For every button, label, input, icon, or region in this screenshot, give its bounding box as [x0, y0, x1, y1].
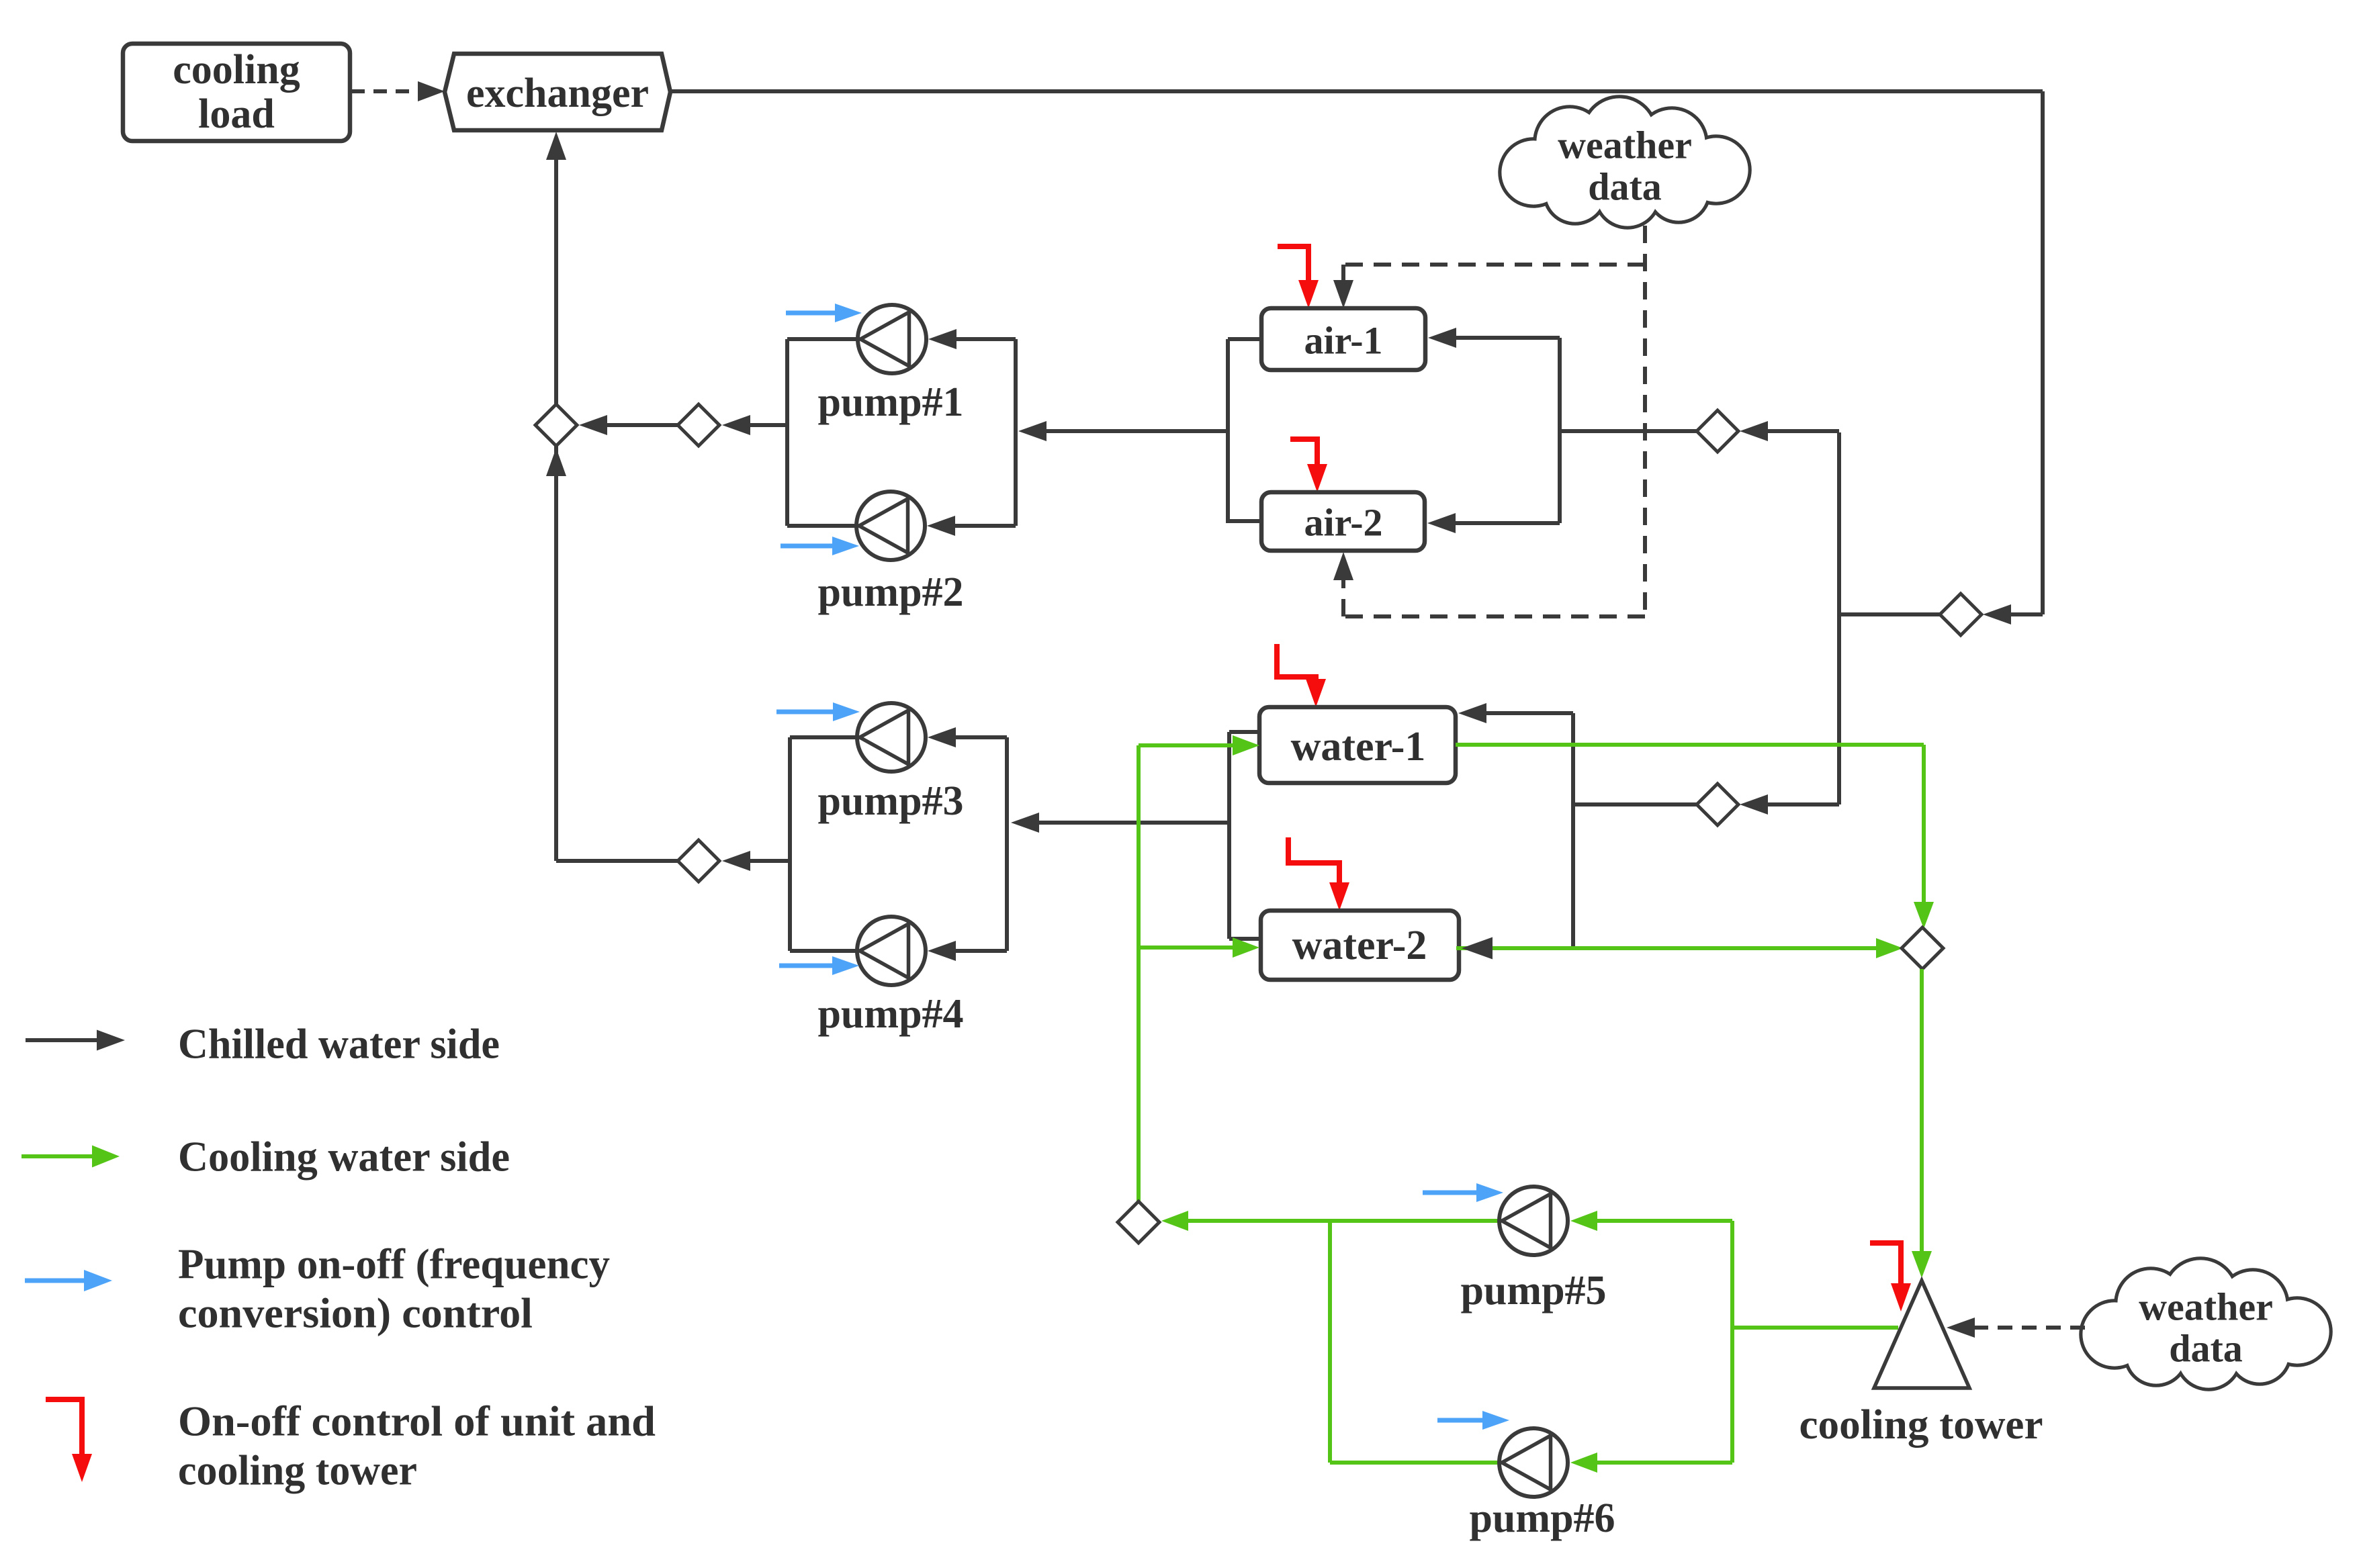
- legend label pump on-off line2: [178, 1289, 533, 1337]
- blue arrow pump#1 control: [786, 304, 862, 322]
- wire pump loop 1 right vertical: [1014, 339, 1018, 526]
- blue arrow pump#4 control: [779, 956, 859, 975]
- svg-text:data: data: [1588, 165, 1662, 209]
- dashed wire cloud to tower: [1947, 1318, 2085, 1338]
- wire diamond J5 to return tee: [1839, 612, 1941, 616]
- dashed wire to air-1 top: [1333, 265, 1645, 308]
- svg-text:water-2: water-2: [1292, 923, 1427, 968]
- diamond J4: [1697, 410, 1738, 452]
- arrow into diamond J1 bottom: [546, 448, 566, 497]
- svg-text:Cooling water side: Cooling water side: [178, 1133, 510, 1181]
- svg-text:pump#1: pump#1: [817, 379, 963, 425]
- red elbow water-1 control: [1277, 644, 1326, 707]
- svg-text:weather: weather: [1558, 124, 1692, 167]
- diamond J8 green: [1118, 1201, 1159, 1243]
- wire into pump#2: [927, 516, 1016, 536]
- svg-text:data: data: [2169, 1327, 2243, 1371]
- diamond J7 green: [1902, 927, 1943, 969]
- svg-text:load: load: [198, 91, 275, 137]
- box cooling load: [123, 44, 350, 141]
- dashed wire cooling load to exchanger: [351, 81, 445, 101]
- label pump#5: [1460, 1268, 1606, 1313]
- green wire tower to pumps: [1732, 1326, 1898, 1330]
- wire into pump#1: [928, 329, 1016, 349]
- svg-text:cooling: cooling: [173, 47, 300, 93]
- wire tee to diamond J6: [1740, 794, 1839, 815]
- diamond J2: [678, 404, 719, 446]
- wire diamond J1 up to exchanger: [546, 132, 566, 405]
- legend red elbow: [46, 1399, 92, 1482]
- svg-text:water-1: water-1: [1291, 724, 1426, 770]
- legend black arrow: [26, 1030, 125, 1051]
- wire air units right vertical: [1558, 338, 1562, 523]
- wire air outlet to pump loop 1: [1018, 421, 1228, 441]
- wire pump loop 2 outlet to diamond J3: [722, 851, 790, 871]
- red elbow cooling tower control: [1870, 1243, 1911, 1311]
- pump symbol pump#6: [1499, 1428, 1568, 1497]
- triangle cooling tower: [1874, 1281, 1969, 1388]
- label pump#1: [817, 379, 963, 425]
- green wire water-1 to diamond J7: [1456, 745, 1934, 929]
- cloud weather data top: [1500, 97, 1750, 228]
- wire into water-1 right: [1458, 703, 1573, 723]
- svg-text:On-off control of unit and: On-off control of unit and: [178, 1397, 656, 1445]
- diamond J1: [535, 404, 577, 446]
- svg-text:pump#4: pump#4: [817, 991, 963, 1037]
- blue arrow pump#2 control: [781, 537, 859, 555]
- legend green arrow: [21, 1146, 120, 1168]
- wire water units right vertical: [1571, 713, 1575, 948]
- wire riser to diamond J5: [1983, 604, 2043, 625]
- label pump#4: [817, 991, 963, 1037]
- wire into air-2 right: [1427, 513, 1560, 533]
- wire diamond J2 to diamond J1: [579, 415, 678, 435]
- label cooling tower: [1799, 1402, 2043, 1448]
- pump symbol pump#5: [1499, 1187, 1568, 1255]
- legend blue arrow: [25, 1270, 112, 1291]
- svg-text:Pump on-off (frequency: Pump on-off (frequency: [178, 1240, 610, 1288]
- green wire pumps right vertical: [1730, 1221, 1734, 1463]
- svg-text:cooling tower: cooling tower: [178, 1446, 417, 1494]
- svg-text:pump#6: pump#6: [1469, 1495, 1615, 1541]
- wire pump loop 1 outlet to diamond J2: [722, 415, 787, 435]
- box water-1: [1259, 707, 1456, 783]
- wire into air-1 right: [1428, 328, 1560, 348]
- svg-text:pump#3: pump#3: [817, 778, 963, 824]
- green wire into pump#5: [1570, 1211, 1732, 1231]
- wire exchanger to right riser: [670, 89, 2043, 93]
- wire pump loop 1 left vertical: [785, 339, 789, 526]
- wire pump loop 2 left vertical: [788, 737, 792, 951]
- blue arrow pump#3 control: [776, 702, 860, 721]
- wire pump#3 out: [790, 735, 858, 739]
- diamond J6: [1697, 784, 1738, 825]
- dashed wire to air-2 bottom: [1333, 552, 1645, 616]
- wire pump#2 out: [787, 524, 858, 528]
- box air-1: [1261, 308, 1425, 370]
- wire into water-2 right shaft: [1468, 946, 1573, 950]
- red elbow air-1 control: [1278, 246, 1319, 308]
- pump symbol pump#2: [856, 492, 925, 560]
- pump symbol pump#1: [858, 305, 926, 373]
- legend label pump on-off line1: [178, 1240, 610, 1288]
- box air-2: [1261, 492, 1425, 551]
- svg-text:Chilled water side: Chilled water side: [178, 1020, 500, 1068]
- green riser left: [1137, 745, 1141, 1202]
- legend label on-off control line1: [178, 1397, 656, 1445]
- legend label on-off control line2: [178, 1446, 417, 1494]
- wire diamond J3 to chilled return riser: [556, 446, 678, 861]
- svg-text:pump#5: pump#5: [1460, 1268, 1606, 1313]
- green wire water-2 inlet: [1139, 937, 1259, 958]
- wire air units left vertical: [1228, 339, 1263, 523]
- blue arrow pump#6 control: [1437, 1411, 1509, 1430]
- hexagon exchanger: [445, 54, 670, 130]
- wire pump#4 out: [790, 949, 858, 953]
- wire into pump#4: [928, 941, 1007, 961]
- label pump#3: [817, 778, 963, 824]
- wire tee to diamond J4: [1740, 421, 1839, 441]
- green wire water-2 to diamond J7: [1456, 938, 1903, 958]
- green wire diamond J7 to tower: [1912, 969, 1932, 1278]
- legend label chilled water side: [178, 1020, 500, 1068]
- svg-text:conversion) control: conversion) control: [178, 1289, 533, 1337]
- wire right riser down: [2041, 91, 2045, 614]
- arrowhead into water-2 right: [1462, 937, 1493, 960]
- diamond J3: [678, 840, 719, 882]
- green wire water-1 inlet: [1139, 735, 1259, 755]
- pump symbol pump#4: [857, 917, 926, 985]
- green wire pump#5 out to diamond J8: [1161, 1211, 1499, 1231]
- box water-2: [1261, 911, 1459, 980]
- svg-text:exchanger: exchanger: [466, 71, 649, 116]
- dashed wire cloud down: [1643, 226, 1647, 616]
- wire water outlet to pump loop 2: [1011, 813, 1229, 833]
- wire pump loop 2 right vertical: [1005, 737, 1009, 951]
- diamond J5: [1940, 594, 1982, 635]
- wire return tee vertical: [1837, 432, 1841, 804]
- svg-text:pump#2: pump#2: [817, 569, 963, 615]
- wire diamond J4 to air units: [1560, 429, 1697, 433]
- svg-text:cooling tower: cooling tower: [1799, 1402, 2043, 1448]
- wire into pump#3: [928, 727, 1007, 747]
- green wire into pump#6: [1570, 1452, 1732, 1473]
- svg-text:air-2: air-2: [1304, 501, 1382, 545]
- cloud weather data bottom: [2081, 1258, 2331, 1389]
- label pump#2: [817, 569, 963, 615]
- wire pump#1 out: [787, 337, 859, 341]
- red elbow water-2 control: [1288, 837, 1349, 911]
- green wire branch down: [1330, 1221, 1503, 1463]
- svg-text:air-1: air-1: [1304, 319, 1382, 363]
- wire diamond J6 to water units: [1574, 802, 1697, 806]
- blue arrow pump#5 control: [1423, 1183, 1503, 1202]
- red elbow air-2 control: [1290, 439, 1327, 492]
- pump symbol pump#3: [857, 703, 926, 772]
- svg-text:weather: weather: [2139, 1285, 2273, 1329]
- wire water units left vertical: [1229, 732, 1262, 939]
- legend label cooling water side: [178, 1133, 510, 1181]
- label pump#6: [1469, 1495, 1615, 1541]
